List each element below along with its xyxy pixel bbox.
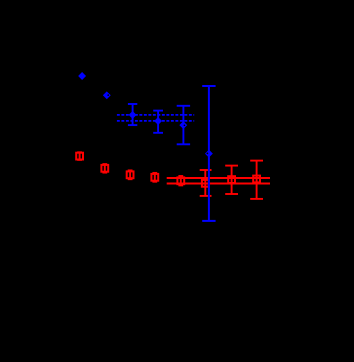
red point S6 error bar (200, 170, 212, 196)
red point S8 error bar (250, 161, 263, 199)
black dot inside diamond P4 (207, 153, 209, 155)
blue dashed horizontal error bar of P1 (117, 114, 194, 116)
red long horizontal bar L1 (167, 177, 270, 179)
black dot inside diamond D2 (107, 94, 109, 96)
red square S8 (253, 176, 260, 183)
black dot inside diamond P3 (184, 124, 186, 126)
red square S5 (177, 177, 184, 184)
blue diamond P3 (179, 121, 187, 129)
blue dashed horizontal error bar of P2 (117, 120, 194, 122)
red square S3 (127, 171, 134, 178)
blue diamond P4 (205, 150, 213, 158)
blue diamond D1 (78, 72, 86, 80)
blue diamond P2 (154, 117, 162, 125)
red square S2 (101, 165, 108, 172)
red square S1 (76, 153, 83, 160)
blue diamond P1 (129, 111, 137, 119)
red point S2 error bar (102, 164, 107, 173)
blue point P3 vertical error bar (177, 106, 190, 145)
red point S7 error bar (225, 166, 238, 194)
red long horizontal bar L2 (167, 183, 270, 185)
red square S4 (151, 174, 158, 181)
red point S4 error bar (152, 172, 157, 182)
blue point P1 vertical error bar (128, 104, 137, 125)
red point S3 error bar (128, 170, 133, 180)
blue point P4 tall vertical error bar (202, 86, 215, 221)
blue diamond D2 (103, 91, 111, 99)
red point S1 error bar (77, 152, 82, 161)
red point S5 error bar (178, 176, 183, 186)
blue point P2 vertical error bar (153, 111, 163, 133)
red square S6 (202, 180, 209, 187)
red square S7 (228, 176, 235, 183)
